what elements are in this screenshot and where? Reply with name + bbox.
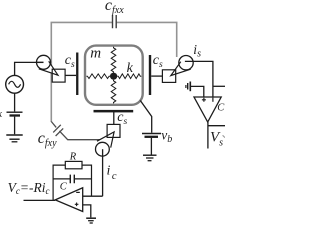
- svg-text:Vc=-Ric: Vc=-Ric: [8, 180, 50, 196]
- svg-text:m: m: [90, 46, 101, 62]
- svg-text:k: k: [127, 61, 134, 76]
- svg-text:R: R: [69, 152, 77, 163]
- svg-text:C: C: [60, 181, 68, 192]
- svg-text:C: C: [217, 103, 225, 114]
